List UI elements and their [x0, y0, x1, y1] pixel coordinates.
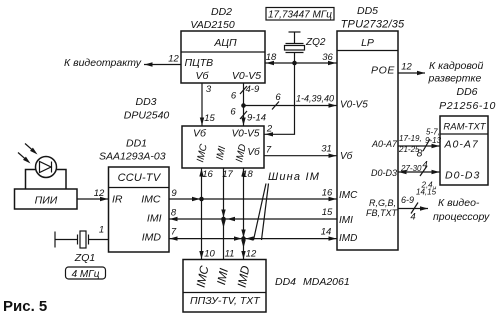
- svg-text:IMI: IMI: [339, 215, 353, 226]
- svg-text:TPU2732/35: TPU2732/35: [341, 19, 405, 31]
- DD6 divider: [440, 133, 488, 135]
- svg-text:8: 8: [417, 148, 423, 160]
- svg-text:4: 4: [422, 160, 427, 171]
- svg-text:ZQ2: ZQ2: [305, 37, 326, 48]
- svg-text:16: 16: [202, 169, 213, 180]
- svg-text:A0-A7: A0-A7: [444, 139, 479, 151]
- svg-text:IMC: IMC: [339, 190, 358, 201]
- svg-text:DPU2540: DPU2540: [124, 110, 170, 122]
- bus V0-V5 horizontal to DD5: [244, 105, 338, 107]
- PII box: [15, 189, 78, 209]
- svg-text:10: 10: [204, 249, 215, 260]
- IC DD3 box: [182, 126, 264, 168]
- svg-text:17,73447 МГц: 17,73447 МГц: [268, 10, 332, 21]
- svg-text:Vб: Vб: [193, 128, 207, 140]
- svg-text:DD2: DD2: [211, 6, 232, 18]
- svg-text:IMD: IMD: [142, 232, 162, 244]
- svg-text:6-9: 6-9: [401, 195, 414, 205]
- IC DD5 box: [337, 31, 398, 250]
- svg-text:DD4: DD4: [275, 276, 296, 288]
- junction IMC node: [199, 197, 204, 202]
- crystal ZQ1 terminal: [54, 232, 56, 248]
- wire IM vertical 3 DD3 pin18 to DD4 pin12: [243, 168, 245, 260]
- bus IMD horizontal: [169, 238, 337, 240]
- junction IMI node: [221, 217, 226, 222]
- svg-text:6: 6: [230, 107, 236, 118]
- wire PII to CCU pin12: [77, 198, 109, 200]
- wire ADC Vb pin3 to DD3 pin15: [201, 83, 203, 126]
- svg-text:DD3: DD3: [135, 96, 156, 108]
- svg-text:31: 31: [321, 144, 332, 155]
- crystal ZQ2 frequency box: [266, 8, 334, 21]
- svg-text:V0-V5: V0-V5: [232, 129, 260, 140]
- svg-text:3: 3: [206, 84, 212, 95]
- svg-text:18: 18: [266, 52, 277, 63]
- wire ADC pin12 to video path: [144, 64, 181, 66]
- svg-text:2: 2: [266, 124, 273, 135]
- photodiode holder box: [26, 170, 67, 190]
- svg-text:14,15: 14,15: [416, 188, 437, 197]
- bus DD5 RGB to video processor: [398, 208, 428, 210]
- wire ADC pin18 to DD5 pin36: [265, 62, 337, 64]
- svg-text:К видео-: К видео-: [438, 197, 480, 209]
- wire IM vertical 1 DD3 pin16 to DD4 pin10: [201, 168, 203, 260]
- svg-text:процессору: процессору: [433, 211, 490, 223]
- svg-text:Рис. 5: Рис. 5: [3, 298, 47, 315]
- svg-text:8: 8: [171, 208, 177, 219]
- bus DD5 D0-D3 to DD6: [398, 171, 440, 173]
- svg-text:IMI: IMI: [147, 213, 162, 225]
- svg-text:1-4,39,40: 1-4,39,40: [296, 94, 334, 104]
- bus IMC horizontal: [169, 198, 337, 200]
- IC DD6 box: [440, 116, 488, 185]
- svg-text:7: 7: [171, 227, 177, 238]
- svg-text:P21256-10: P21256-10: [439, 100, 496, 112]
- junction V0-V5 bus node: [241, 103, 246, 108]
- svg-text:Vб: Vб: [196, 70, 210, 82]
- svg-text:7: 7: [266, 145, 272, 156]
- ZQ1 frequency box: [66, 267, 106, 279]
- svg-text:4-9: 4-9: [246, 84, 260, 95]
- svg-text:К видеотракту: К видеотракту: [64, 57, 142, 69]
- crystal ZQ1 symbol: [78, 231, 89, 248]
- svg-text:LP: LP: [361, 37, 374, 49]
- svg-text:MDA2061: MDA2061: [303, 276, 350, 288]
- svg-text:Vб: Vб: [247, 146, 260, 158]
- junction IMD node: [241, 236, 246, 241]
- svg-text:16: 16: [322, 188, 333, 199]
- bus slash D: [420, 166, 427, 176]
- svg-text:9: 9: [171, 188, 177, 199]
- bus slash 4-9: [240, 86, 247, 94]
- svg-text:развертке: развертке: [428, 73, 482, 85]
- bus slash A: [423, 139, 430, 151]
- svg-text:D0-D3: D0-D3: [445, 170, 480, 182]
- svg-text:CCU-TV: CCU-TV: [118, 172, 162, 184]
- svg-text:VAD2150: VAD2150: [190, 19, 235, 31]
- wire POE pin12 to frame scan: [398, 72, 425, 74]
- bus leader lines: [254, 184, 267, 241]
- svg-text:4: 4: [410, 212, 415, 223]
- svg-text:11: 11: [225, 249, 235, 260]
- wire IM vertical 2 DD3 pin17 to DD4 pin11: [223, 168, 225, 260]
- svg-text:SAA1293A-03: SAA1293A-03: [99, 151, 166, 163]
- svg-text:АЦП: АЦП: [213, 37, 237, 49]
- DD4 divider: [183, 292, 266, 294]
- svg-text:IMD: IMD: [339, 233, 357, 244]
- svg-text:ППЗУ-TV, TXT: ППЗУ-TV, TXT: [190, 295, 261, 307]
- svg-text:1: 1: [99, 225, 104, 236]
- svg-text:V0-V5: V0-V5: [232, 70, 261, 82]
- DD5 divider: [337, 50, 398, 52]
- svg-text:18: 18: [242, 169, 253, 180]
- svg-text:17-19,: 17-19,: [399, 134, 422, 143]
- wire DD3 Vb pin7 to DD5 pin31: [264, 155, 337, 157]
- svg-text:15: 15: [204, 113, 215, 124]
- svg-text:К кадровой: К кадровой: [429, 60, 483, 72]
- svg-text:15: 15: [322, 207, 333, 218]
- svg-text:V0-V5: V0-V5: [340, 100, 368, 111]
- svg-text:Шина IM: Шина IM: [268, 171, 320, 183]
- svg-text:ПИИ: ПИИ: [35, 195, 58, 207]
- bus slash RGB: [411, 203, 418, 214]
- svg-text:FB,TXT: FB,TXT: [366, 208, 399, 218]
- svg-text:9-13: 9-13: [425, 136, 442, 145]
- svg-text:D0-D3: D0-D3: [371, 168, 397, 178]
- svg-text:36: 36: [322, 52, 333, 63]
- photodiode cathode bar: [51, 162, 53, 173]
- svg-text:12: 12: [401, 62, 412, 73]
- svg-text:27-30: 27-30: [400, 164, 422, 173]
- photodiode circle: [36, 157, 57, 178]
- wire ZQ2 node to DD3 pin2: [264, 63, 295, 134]
- svg-text:IMC: IMC: [141, 194, 161, 206]
- bus slash horizontal: [272, 102, 279, 110]
- bus DD5 A0-A7 to DD6: [398, 145, 440, 147]
- bus ADC V0-V5 vertical: [243, 83, 245, 126]
- svg-text:6: 6: [275, 92, 281, 103]
- crystal ZQ2 symbol: [285, 32, 305, 63]
- svg-text:RAM-TXT: RAM-TXT: [443, 122, 486, 133]
- svg-text:A0-A7: A0-A7: [371, 139, 398, 149]
- svg-text:12: 12: [94, 188, 105, 199]
- photodiode triangle: [40, 162, 52, 173]
- svg-text:Vб: Vб: [340, 150, 353, 162]
- op block U=ADC box (АЦП) DD2: [181, 31, 265, 83]
- bus IMI horizontal: [169, 218, 337, 220]
- svg-text:9-14: 9-14: [247, 113, 266, 124]
- junction ZQ2 node: [292, 61, 297, 66]
- wire ZQ1 left: [55, 239, 77, 241]
- svg-text:12: 12: [168, 54, 179, 65]
- svg-text:DD5: DD5: [357, 5, 378, 17]
- svg-text:IR: IR: [112, 194, 123, 206]
- svg-text:4 МГц: 4 МГц: [72, 269, 100, 280]
- svg-text:14: 14: [321, 227, 332, 238]
- IC DD1 CCU-TV box: [109, 167, 170, 252]
- wire ZQ1 to CCU pin1: [89, 239, 109, 241]
- DD4 box: [183, 260, 266, 313]
- svg-text:12: 12: [246, 249, 257, 260]
- svg-text:DD6: DD6: [456, 86, 477, 98]
- svg-text:17: 17: [222, 169, 233, 180]
- svg-text:DD1: DD1: [126, 138, 147, 150]
- svg-text:ZQ1: ZQ1: [74, 252, 95, 264]
- svg-text:POE: POE: [371, 65, 395, 77]
- CCU divider: [109, 187, 170, 189]
- photodiode light arrows: [25, 144, 35, 153]
- bus slash 9-14: [240, 111, 247, 119]
- svg-text:R,G,B,: R,G,B,: [369, 198, 396, 208]
- svg-text:6: 6: [231, 91, 237, 102]
- svg-text:ПЦТВ: ПЦТВ: [185, 57, 214, 69]
- ADC box divider: [181, 51, 265, 53]
